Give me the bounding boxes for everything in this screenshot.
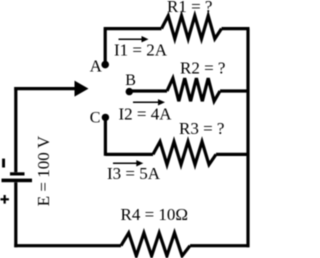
wire R2 branch right (220, 89, 250, 92)
svg-text:R3 = ?: R3 = ? (179, 119, 224, 138)
battery minus sign (2, 159, 5, 168)
node A dot (101, 61, 109, 69)
resistor R2 zigzag (167, 78, 220, 101)
svg-text:A: A (90, 57, 103, 76)
wire junction feed horizontal (14, 87, 76, 90)
battery E1 top plate (negative) (10, 172, 25, 175)
wire left vertical bottom (battery to bottom rail) (14, 182, 17, 247)
svg-text:R1 = ?: R1 = ? (167, 0, 212, 16)
wire node C stub down (104, 117, 107, 155)
node B dot (126, 88, 133, 95)
wire R1 branch left (104, 27, 161, 30)
svg-text:I1 = 2A: I1 = 2A (114, 41, 168, 60)
wire R1 branch right (222, 27, 250, 30)
svg-text:I2 = 4A: I2 = 4A (119, 105, 173, 124)
junction arrowhead (75, 81, 89, 97)
svg-text:R4 = 10Ω: R4 = 10Ω (121, 205, 189, 224)
wire left vertical top (battery to corner) (14, 87, 17, 172)
svg-text:B: B (125, 72, 136, 89)
svg-text:E = 100 V: E = 100 V (34, 135, 53, 206)
current I2 arrow (133, 99, 165, 105)
current I3 arrow (113, 160, 143, 166)
node C dot (102, 114, 109, 121)
wire right vertical rail (246, 29, 249, 248)
resistor R4 zigzag (121, 233, 190, 256)
wire bottom rail left segment (14, 244, 121, 247)
svg-text:I3 = 5A: I3 = 5A (107, 164, 161, 183)
wire bottom rail right segment (190, 244, 250, 247)
battery plus sign (0, 195, 9, 204)
current I1 arrow (119, 36, 149, 42)
wire R2 branch left (129, 89, 167, 92)
wire node A stub up (104, 27, 107, 65)
wire R3 branch left (105, 153, 153, 156)
wire R3 branch right (216, 153, 250, 156)
resistor R3 zigzag (153, 142, 216, 165)
svg-text:C: C (90, 109, 101, 126)
resistor R1 zigzag (162, 16, 222, 39)
svg-text:R2 = ?: R2 = ? (180, 59, 225, 78)
battery E1 bottom plate (positive) (2, 179, 33, 183)
